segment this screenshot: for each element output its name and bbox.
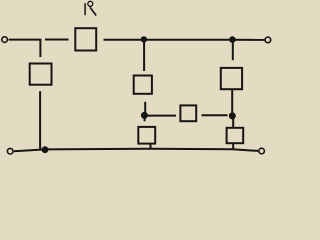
resistor R5 <box>180 105 196 121</box>
node C junction dot <box>42 146 49 153</box>
wire R6 down to node E <box>231 89 233 116</box>
wire R4 to bottom wire <box>150 144 152 149</box>
terminal bottom-right <box>259 148 265 154</box>
bottom wire from bottom-left terminal to bottom-right terminal <box>14 149 258 151</box>
terminal top-right <box>265 37 271 43</box>
resistor R7 <box>227 128 244 143</box>
wire node D to R5 <box>147 115 176 117</box>
node B junction dot <box>229 36 236 43</box>
terminal top-left <box>2 37 8 43</box>
resistor R4 <box>138 127 155 144</box>
wire from top-left terminal turning down toward R2 <box>9 40 41 57</box>
wire R5 to node E <box>202 114 228 116</box>
wire R2 down to bottom node C <box>39 91 41 149</box>
wire node B to top-right terminal <box>232 39 264 41</box>
node E junction dot <box>229 112 236 119</box>
resistor R1 <box>75 28 96 50</box>
label R <box>85 1 96 15</box>
resistor R3 <box>134 76 152 94</box>
wire R1 to node A <box>104 39 145 41</box>
resistor R6 <box>221 68 242 89</box>
wire segment toward R1 <box>45 39 69 41</box>
node D junction dot <box>141 112 148 119</box>
wire node B down toward R6 <box>232 41 234 60</box>
wire node A down to R3 <box>143 40 145 71</box>
wire node E down to R7 <box>232 116 234 128</box>
wire R3 down to node D <box>144 102 146 116</box>
wire R7 to bottom wire <box>232 143 234 149</box>
node A junction dot <box>141 36 147 42</box>
wire node D down to R4 <box>144 115 146 121</box>
resistor R2 <box>30 64 52 85</box>
terminal bottom-left <box>7 148 13 154</box>
wire node A to node B <box>144 39 232 41</box>
